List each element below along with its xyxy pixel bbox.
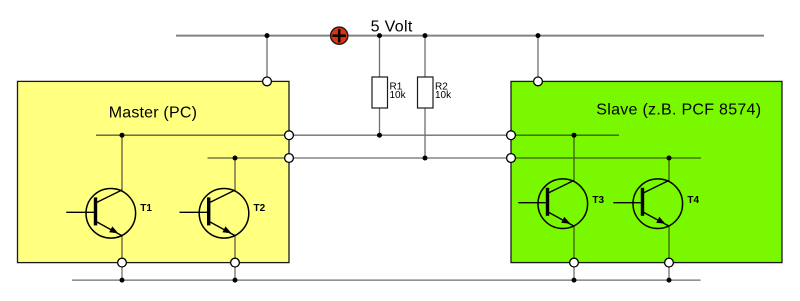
svg-text:T1: T1 [140,203,152,214]
svg-text:5 Volt: 5 Volt [371,19,413,36]
svg-text:T3: T3 [592,195,604,206]
svg-text:Slave (z.B. PCF 8574): Slave (z.B. PCF 8574) [596,102,761,119]
svg-text:10k: 10k [435,90,452,101]
svg-text:10k: 10k [390,90,407,101]
svg-text:T4: T4 [687,195,699,206]
svg-text:Master (PC): Master (PC) [109,105,197,122]
svg-text:T2: T2 [254,203,266,214]
